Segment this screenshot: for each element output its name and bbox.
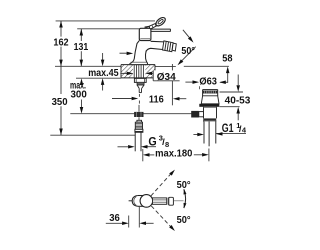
svg-text:40-53: 40-53: [225, 94, 251, 106]
svg-text:Ø63: Ø63: [199, 75, 217, 87]
svg-text:50°: 50°: [177, 214, 191, 226]
svg-text:58: 58: [222, 53, 232, 65]
svg-text:116: 116: [149, 93, 164, 105]
svg-text:300: 300: [71, 89, 87, 101]
svg-text:Ø34: Ø34: [157, 71, 176, 83]
svg-text:36: 36: [109, 212, 120, 224]
svg-text:G1: G1: [222, 123, 234, 135]
svg-text:162: 162: [53, 37, 68, 49]
svg-text:50°: 50°: [181, 45, 195, 57]
svg-text:50°: 50°: [177, 179, 191, 191]
svg-text:131: 131: [74, 41, 89, 53]
svg-text:G: G: [148, 134, 156, 148]
svg-text:max.180: max.180: [155, 148, 192, 160]
svg-text:max.45: max.45: [88, 67, 119, 79]
svg-text:350: 350: [52, 96, 68, 108]
